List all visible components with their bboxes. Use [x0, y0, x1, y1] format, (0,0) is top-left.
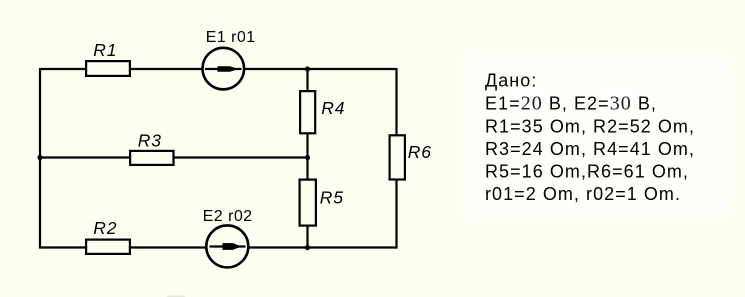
svg-text:R1: R1 [93, 40, 117, 60]
white patch behind value 20 [515, 89, 548, 111]
svg-text:E1=20 В, E2=30 В,: E1=20 В, E2=30 В, [485, 93, 657, 115]
resistor R5 [300, 180, 344, 226]
wire center rail (R4/R5 branch) [306, 69, 308, 248]
junction node: center rail / top wire [305, 66, 310, 71]
junction node: left rail / middle branch [37, 155, 42, 160]
svg-text:R3=24 Om, R4=41 Om,: R3=24 Om, R4=41 Om, [485, 139, 695, 159]
white patch behind value 30 [603, 87, 632, 111]
resistor R4 [300, 91, 345, 133]
white backdrop behind given-data text [462, 56, 730, 216]
EMF source E1 (with internal resistance r01) [203, 29, 256, 89]
given-data text block [485, 71, 695, 204]
wire bottom [40, 246, 397, 248]
svg-text:R6: R6 [408, 142, 432, 162]
resistor R3 [130, 130, 173, 165]
svg-text:R4: R4 [321, 98, 345, 118]
junction node: center rail / middle branch [305, 155, 310, 160]
svg-text:Дано:: Дано: [485, 71, 537, 91]
svg-text:r01=2 Om, r02=1 Om.: r01=2 Om, r02=1 Om. [485, 184, 681, 204]
svg-text:E2 r02: E2 r02 [203, 208, 253, 225]
svg-text:R5: R5 [320, 188, 344, 208]
wire top (node between R1/E1 and right rail) [40, 68, 397, 70]
wire right rail (R6 branch) [395, 68, 397, 249]
wire left rail [39, 68, 41, 249]
svg-text:E1 r01: E1 r01 [206, 29, 256, 46]
svg-text:R1=35 Om, R2=52 Om,: R1=35 Om, R2=52 Om, [485, 117, 695, 137]
svg-text:R2: R2 [93, 218, 117, 238]
junction node: center rail / bottom wire [305, 245, 310, 250]
resistor R6 [390, 135, 432, 179]
wire middle branch [40, 156, 308, 158]
EMF source E2 (with internal resistance r02) [203, 208, 253, 268]
svg-text:R5=16 Om,R6=61 Om,: R5=16 Om,R6=61 Om, [485, 161, 689, 181]
svg-text:R3: R3 [138, 130, 162, 150]
resistor R2 [86, 218, 130, 254]
resistor R1 [86, 40, 130, 76]
faint artifact mark at bottom edge [167, 295, 185, 297]
